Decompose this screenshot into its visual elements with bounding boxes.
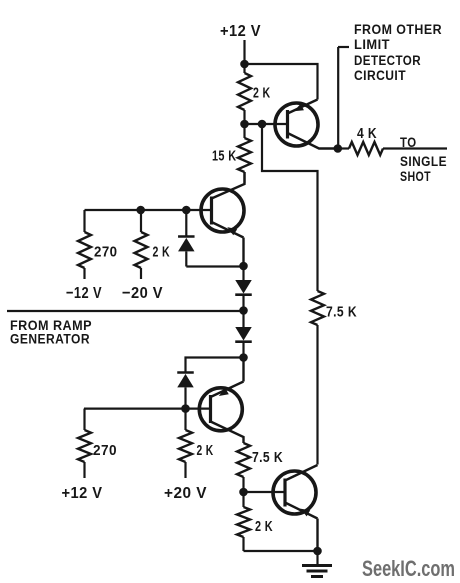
wire ground rail bbox=[244, 550, 318, 552]
svg-text:SINGLE: SINGLE bbox=[400, 154, 447, 169]
label FROM RAMP bbox=[10, 318, 92, 333]
label R10 2K bbox=[255, 518, 273, 535]
diode D2 series bbox=[235, 311, 252, 358]
svg-text:TO: TO bbox=[400, 135, 417, 150]
resistor R6 7.5K bbox=[311, 291, 324, 465]
svg-text:−12 V: −12 V bbox=[66, 285, 102, 302]
label -12V supply bbox=[66, 285, 102, 302]
node 2K top junction bbox=[136, 206, 145, 215]
svg-text:2 K: 2 K bbox=[255, 518, 273, 535]
wire Q1 base bbox=[245, 123, 288, 125]
node ground junction bbox=[313, 547, 322, 556]
label FROM OTHER bbox=[354, 22, 442, 37]
resistor R9 7.5K bbox=[237, 443, 250, 492]
resistor R5 2K bbox=[135, 210, 148, 279]
svg-text:SeekIC.com: SeekIC.com bbox=[362, 556, 455, 581]
label +20V supply bbox=[164, 485, 207, 502]
label SHOT bbox=[400, 169, 431, 184]
svg-text:7.5 K: 7.5 K bbox=[326, 304, 357, 321]
svg-text:270: 270 bbox=[93, 442, 117, 459]
label SINGLE bbox=[400, 154, 447, 169]
svg-text:15 K: 15 K bbox=[212, 148, 237, 165]
svg-text:2 K: 2 K bbox=[197, 442, 214, 459]
resistor R2 15K bbox=[238, 124, 251, 183]
resistor R7 270 bbox=[78, 409, 91, 478]
resistor R3 4K bbox=[338, 142, 447, 155]
label TO bbox=[400, 135, 417, 150]
svg-text:7.5 K: 7.5 K bbox=[252, 449, 283, 466]
label LIMIT bbox=[354, 37, 390, 52]
transistor Q4 NPN bbox=[273, 465, 318, 551]
label R4 270 bbox=[94, 244, 118, 261]
diode D4 clamp bbox=[177, 373, 194, 409]
node Q2 base diode junction bbox=[182, 206, 191, 215]
svg-text:DETECTOR: DETECTOR bbox=[354, 53, 421, 68]
label GENERATOR bbox=[10, 332, 90, 347]
label R5 2K bbox=[153, 244, 171, 261]
node +12V rail junction bbox=[240, 60, 249, 69]
svg-text:+12 V: +12 V bbox=[62, 485, 103, 502]
svg-text:GENERATOR: GENERATOR bbox=[10, 332, 90, 347]
svg-text:270: 270 bbox=[94, 244, 118, 261]
resistor R1 2K bbox=[238, 64, 251, 124]
svg-text:+20 V: +20 V bbox=[164, 485, 207, 502]
wire D3 to Q2 emitter bbox=[186, 265, 243, 267]
label R8 2K bbox=[197, 442, 214, 459]
label SeekIC.com watermark bbox=[362, 556, 455, 581]
resistor R8 2K bbox=[179, 409, 192, 478]
wire Q3 base rail bbox=[84, 408, 211, 410]
diode D1 series bbox=[235, 266, 252, 311]
label +12V lower supply bbox=[62, 485, 103, 502]
label -20V supply bbox=[122, 285, 163, 302]
svg-text:+12 V: +12 V bbox=[220, 23, 261, 40]
wire +12V lead bbox=[243, 40, 245, 64]
node Q1 base junction bbox=[240, 120, 249, 129]
label R9 7.5K bbox=[252, 449, 283, 466]
wire +12V rail to Q1 emitter bbox=[245, 64, 318, 100]
wire from-other-limit tick bbox=[338, 46, 349, 48]
transistor Q1 PNP bbox=[275, 100, 338, 149]
wire Q4 base bbox=[244, 491, 286, 493]
svg-text:CIRCUIT: CIRCUIT bbox=[354, 68, 406, 83]
resistor R4 270 bbox=[78, 210, 91, 279]
node Q4 base junction bbox=[239, 488, 248, 497]
node Q3 base junction bbox=[181, 404, 190, 413]
label +12V supply bbox=[220, 23, 261, 40]
svg-text:−20 V: −20 V bbox=[122, 285, 163, 302]
transistor Q3 PNP bbox=[199, 358, 243, 444]
wire FROM RAMP GENERATOR input bbox=[7, 310, 244, 312]
node Q2 emitter junction bbox=[239, 262, 248, 271]
diode D3 clamp bbox=[178, 210, 195, 267]
label R6 7.5K bbox=[326, 304, 357, 321]
wire node to D4 bbox=[186, 358, 244, 373]
wire from-other-limit drop bbox=[337, 47, 339, 149]
node D2 cathode junction bbox=[239, 353, 248, 362]
ground bbox=[302, 551, 332, 577]
node Q1 collector junction bbox=[334, 144, 343, 153]
label R3 4K bbox=[357, 125, 377, 142]
resistor R10 2K bbox=[237, 492, 250, 551]
svg-text:4 K: 4 K bbox=[357, 125, 377, 142]
label R2 15K bbox=[212, 148, 237, 165]
svg-text:LIMIT: LIMIT bbox=[354, 37, 390, 52]
wire Q2 base rail bbox=[85, 209, 212, 211]
svg-text:FROM OTHER: FROM OTHER bbox=[354, 22, 442, 37]
label DETECTOR bbox=[354, 53, 421, 68]
transistor Q2 NPN bbox=[201, 172, 245, 266]
label CIRCUIT bbox=[354, 68, 406, 83]
svg-text:2 K: 2 K bbox=[153, 244, 171, 261]
wire feedback from Q1 base bbox=[262, 124, 318, 291]
svg-text:SHOT: SHOT bbox=[400, 169, 431, 184]
svg-text:2 K: 2 K bbox=[253, 85, 271, 102]
label R7 270 bbox=[93, 442, 117, 459]
node ramp input junction bbox=[239, 306, 248, 315]
node feedback junction bbox=[258, 120, 267, 129]
label R1 2K bbox=[253, 85, 271, 102]
